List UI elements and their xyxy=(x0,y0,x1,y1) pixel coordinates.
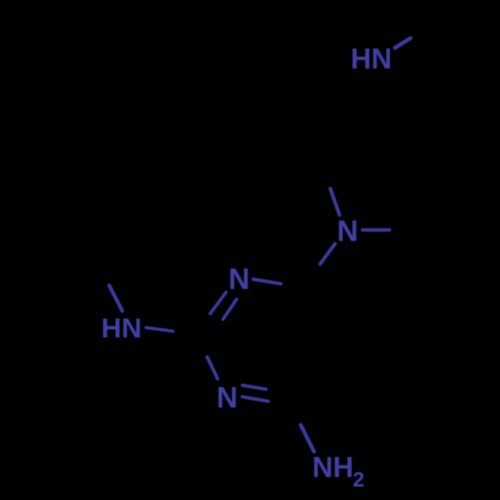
wire bond C4 to NH2 xyxy=(301,425,314,452)
wire double bond N3=C4 line a xyxy=(242,385,266,389)
wire bond CH3 to top-right HN xyxy=(395,38,411,48)
wire bond pyrrolidine N to right xyxy=(363,228,390,231)
wire bond stub above pyrrolidine N xyxy=(330,189,339,216)
svg-text:HN: HN xyxy=(351,43,392,75)
svg-text:HN: HN xyxy=(101,313,141,344)
wire double bond N1=C2 line a xyxy=(210,292,226,313)
wire bond C2 to N3 xyxy=(207,357,217,379)
wire double bond N1=C2 line b xyxy=(223,299,237,319)
svg-text:N: N xyxy=(217,381,238,414)
svg-text:N: N xyxy=(229,263,250,296)
wire bond N1 to C6 xyxy=(253,279,281,284)
wire bond CH3 to left HN xyxy=(109,286,122,311)
svg-text:N: N xyxy=(337,215,358,248)
wire bond C6 to pyrrolidine N xyxy=(320,244,335,264)
wire bond left HN to C2 xyxy=(146,328,173,332)
wire double bond N3=C4 line b xyxy=(242,397,268,402)
